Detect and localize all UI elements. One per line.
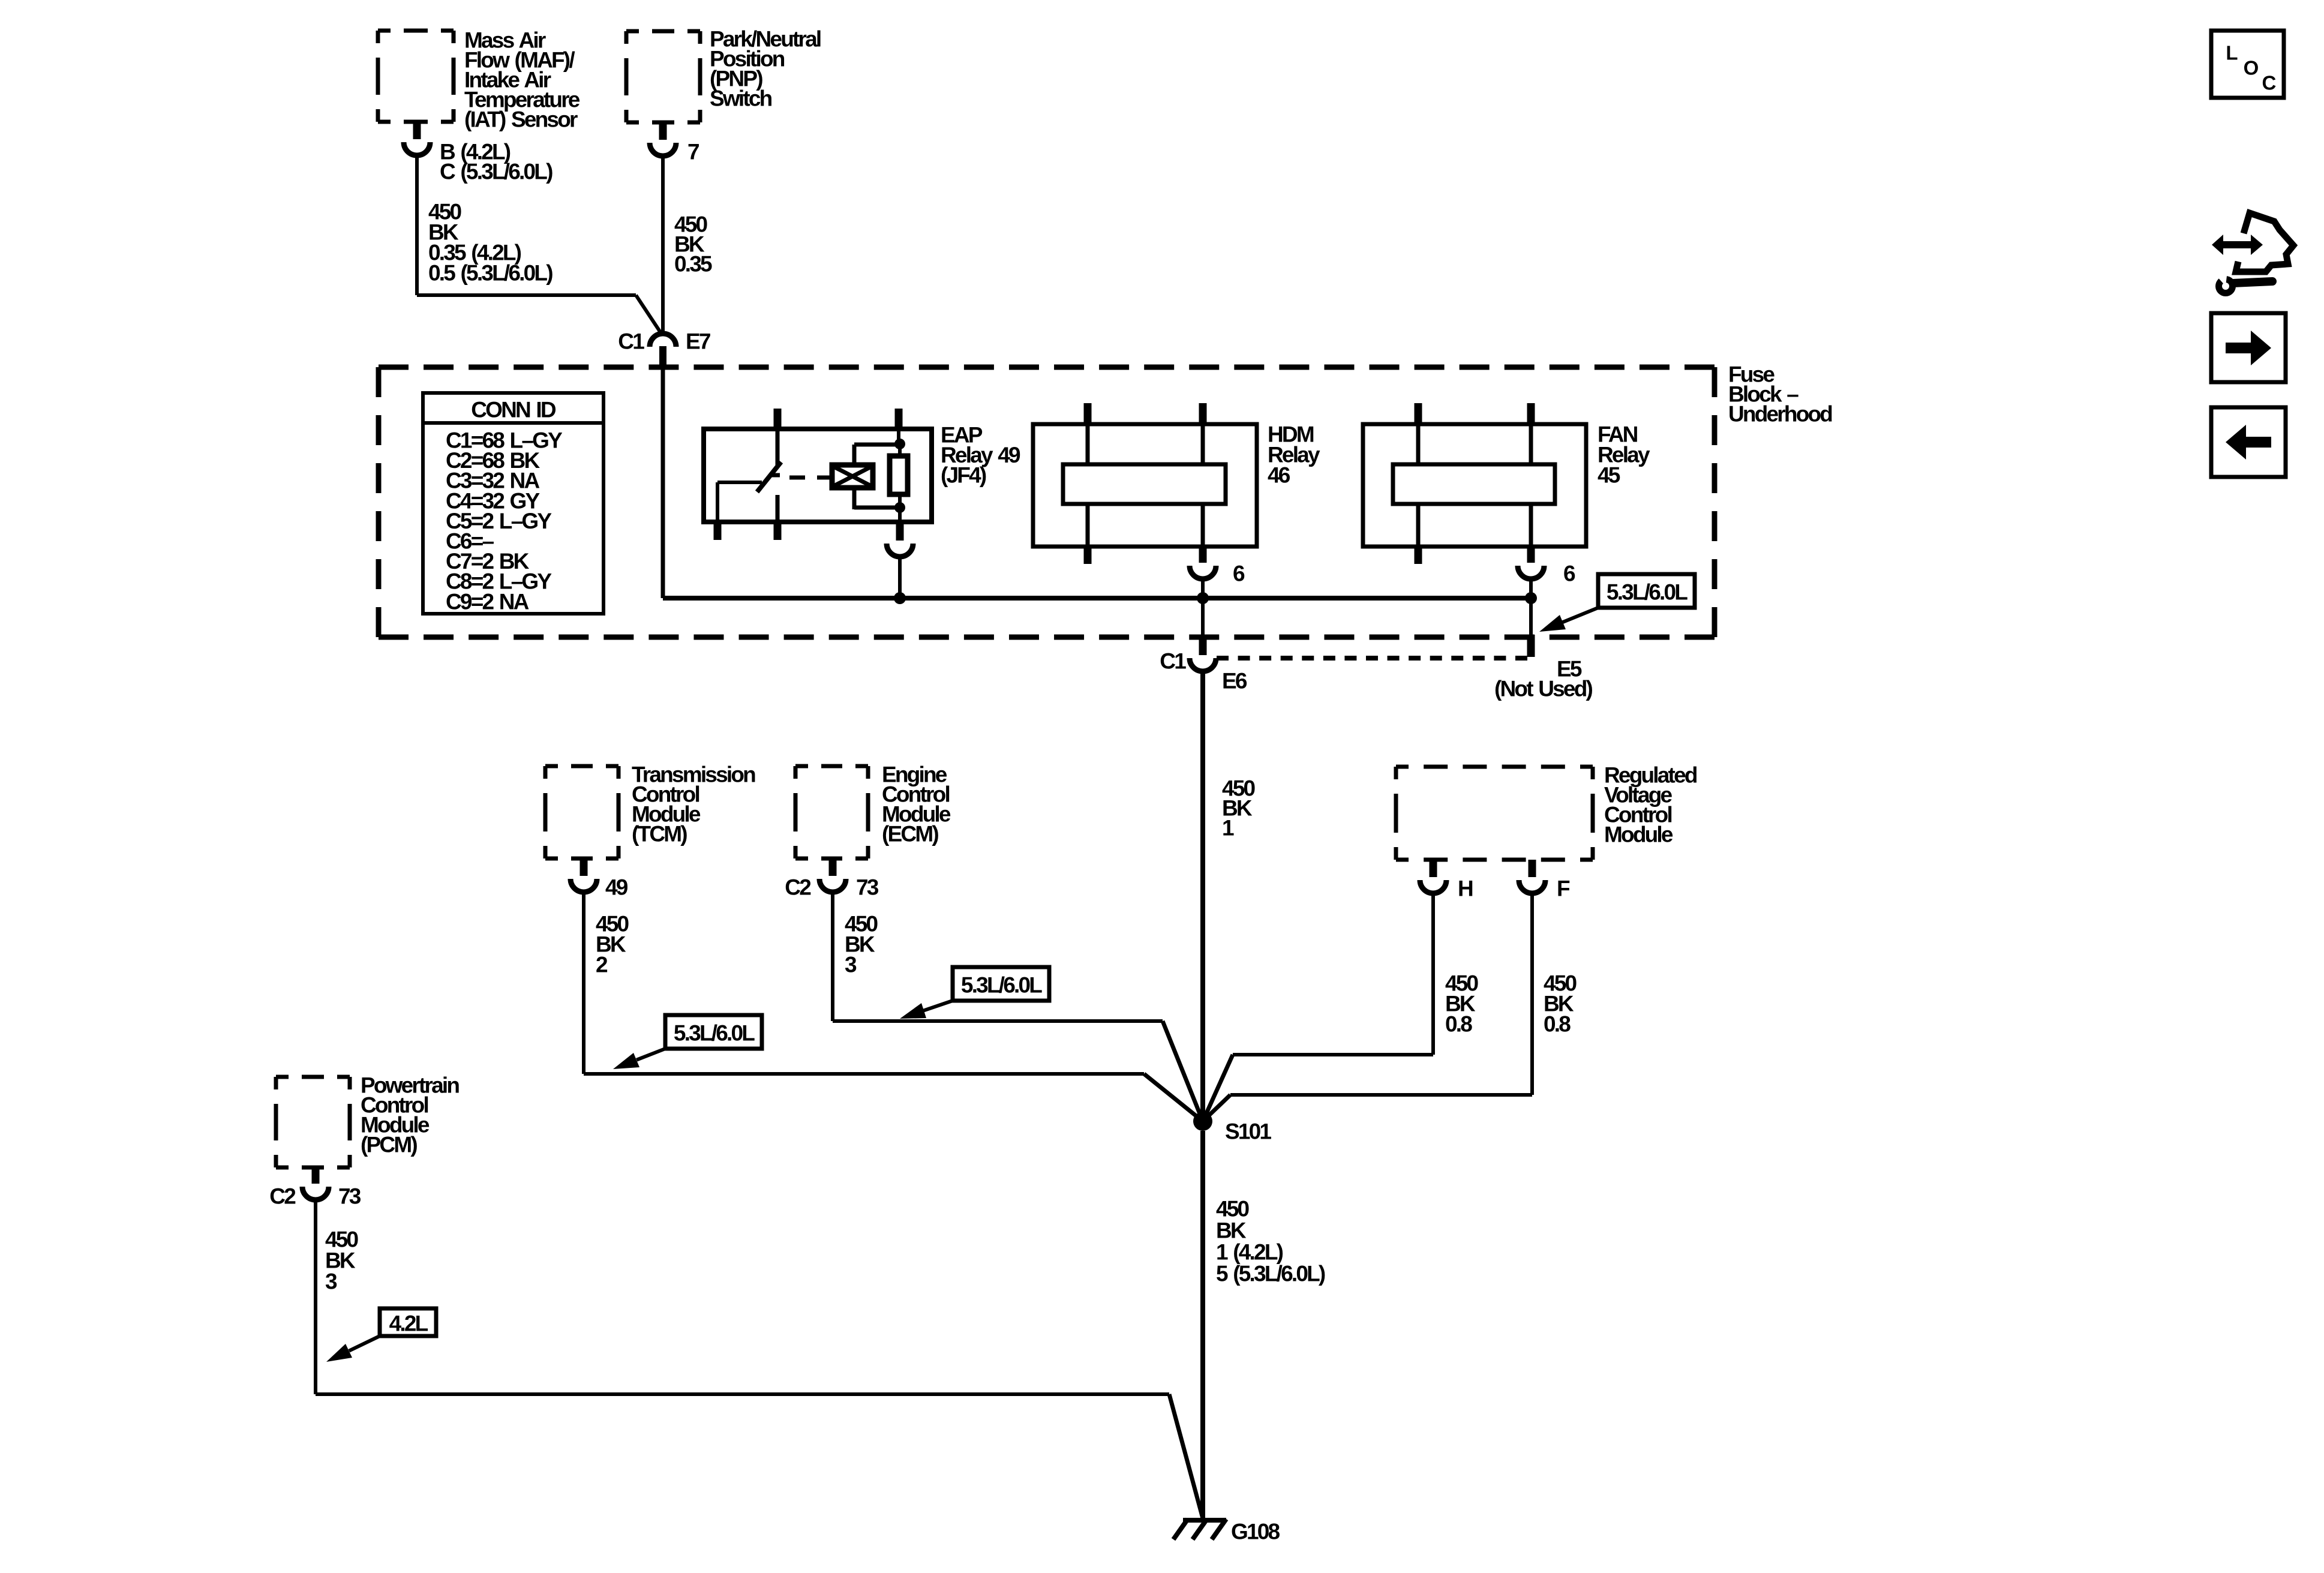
svg-text:4.2L: 4.2L <box>389 1311 428 1336</box>
svg-text:E7: E7 <box>686 329 710 354</box>
svg-text:C2: C2 <box>785 875 811 900</box>
svg-text:3: 3 <box>325 1269 337 1294</box>
svg-text:(JF4): (JF4) <box>941 463 986 488</box>
svg-text:46: 46 <box>1268 463 1290 488</box>
svg-text:C1: C1 <box>618 329 644 354</box>
svg-text:C9=2 NA: C9=2 NA <box>446 589 529 614</box>
svg-text:73: 73 <box>856 875 879 900</box>
svg-text:E6: E6 <box>1222 669 1247 694</box>
svg-text:73: 73 <box>338 1184 361 1209</box>
svg-text:BK: BK <box>1216 1218 1247 1243</box>
svg-text:L: L <box>2226 42 2238 64</box>
svg-text:49: 49 <box>605 875 628 900</box>
svg-text:F: F <box>1557 876 1570 901</box>
svg-text:7: 7 <box>687 140 699 164</box>
svg-text:3: 3 <box>845 953 857 977</box>
svg-text:5.3L/6.0L: 5.3L/6.0L <box>961 973 1042 998</box>
svg-text:1: 1 <box>1222 816 1234 840</box>
svg-text:O: O <box>2244 57 2259 79</box>
svg-text:(Not Used): (Not Used) <box>1494 677 1593 701</box>
svg-text:C (5.3L/6.0L): C (5.3L/6.0L) <box>440 160 553 184</box>
svg-text:Underhood: Underhood <box>1728 402 1832 427</box>
svg-text:0.8: 0.8 <box>1544 1012 1571 1037</box>
svg-text:6: 6 <box>1233 562 1245 586</box>
svg-text:C2: C2 <box>269 1184 296 1209</box>
svg-text:45: 45 <box>1598 463 1620 488</box>
svg-text:0.35: 0.35 <box>674 252 712 277</box>
svg-text:5.3L/6.0L: 5.3L/6.0L <box>674 1021 755 1046</box>
svg-text:C: C <box>2262 72 2275 94</box>
svg-text:(IAT) Sensor: (IAT) Sensor <box>464 107 578 132</box>
svg-text:(TCM): (TCM) <box>632 822 687 846</box>
svg-text:5 (5.3L/6.0L): 5 (5.3L/6.0L) <box>1216 1262 1325 1286</box>
svg-text:C1: C1 <box>1160 649 1186 674</box>
svg-text:6: 6 <box>1563 562 1575 586</box>
svg-text:5.3L/6.0L: 5.3L/6.0L <box>1607 580 1688 605</box>
svg-text:CONN ID: CONN ID <box>471 398 556 422</box>
svg-text:0.8: 0.8 <box>1445 1012 1472 1037</box>
svg-text:S101: S101 <box>1225 1119 1271 1144</box>
svg-text:2: 2 <box>596 953 608 977</box>
svg-text:(PCM): (PCM) <box>361 1133 417 1157</box>
svg-text:450: 450 <box>1216 1197 1250 1221</box>
svg-text:H: H <box>1458 876 1473 901</box>
svg-text:1 (4.2L): 1 (4.2L) <box>1216 1240 1283 1265</box>
svg-text:Module: Module <box>1604 822 1673 847</box>
svg-text:G108: G108 <box>1231 1520 1280 1544</box>
svg-text:Switch: Switch <box>710 86 772 111</box>
svg-text:0.5 (5.3L/6.0L): 0.5 (5.3L/6.0L) <box>428 261 553 286</box>
svg-text:(ECM): (ECM) <box>882 822 938 846</box>
